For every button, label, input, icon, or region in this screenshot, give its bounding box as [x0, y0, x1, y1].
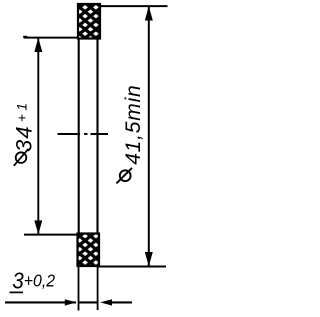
centerline dash left	[58, 133, 81, 135]
extension line below right for t3	[97, 267, 99, 310]
svg-text:3+0,2: 3+0,2	[12, 267, 55, 294]
svg-text:41,5min: 41,5min	[122, 84, 145, 164]
centerline dash right	[91, 133, 109, 135]
extension line bottom for d41.5	[98, 266, 166, 268]
tick at start of top extension line	[23, 36, 27, 38]
dimension line t3 middle part	[78, 301, 99, 303]
arrowhead t3 left (pointing right)	[65, 299, 77, 305]
ring left wall line	[78, 38, 80, 234]
centerline dot	[84, 133, 88, 135]
ring lower cross-section (hatched)	[78, 234, 100, 267]
extension line top for d34	[24, 37, 78, 39]
extension line top for d41.5	[100, 5, 168, 7]
extension line below left for t3	[78, 267, 80, 311]
ring right wall line	[96, 38, 98, 234]
label d34+1 diameter symbol slash	[14, 149, 28, 166]
dimension line t3 left part	[5, 301, 76, 303]
label d41.5min diameter symbol circle	[120, 170, 131, 181]
arrowhead d41.5 top	[145, 6, 153, 20]
label d34+1 diameter symbol circle	[16, 152, 27, 163]
arrowhead d41.5 bottom	[145, 252, 153, 266]
ring upper cross-section (hatched)	[78, 4, 100, 39]
extension line bottom for d34	[24, 234, 78, 236]
dimension line d41.5	[148, 7, 150, 266]
dimension line d34	[37, 39, 39, 234]
arrowhead d34 top	[34, 38, 42, 52]
arrowhead t3 right (pointing left)	[100, 299, 112, 305]
dimension line t3 right part	[110, 301, 132, 303]
tail stroke under label t3	[10, 291, 24, 293]
label d41.5min diameter symbol slash	[116, 168, 132, 184]
arrowhead d34 bottom	[34, 220, 42, 234]
label t3	[12, 267, 55, 294]
